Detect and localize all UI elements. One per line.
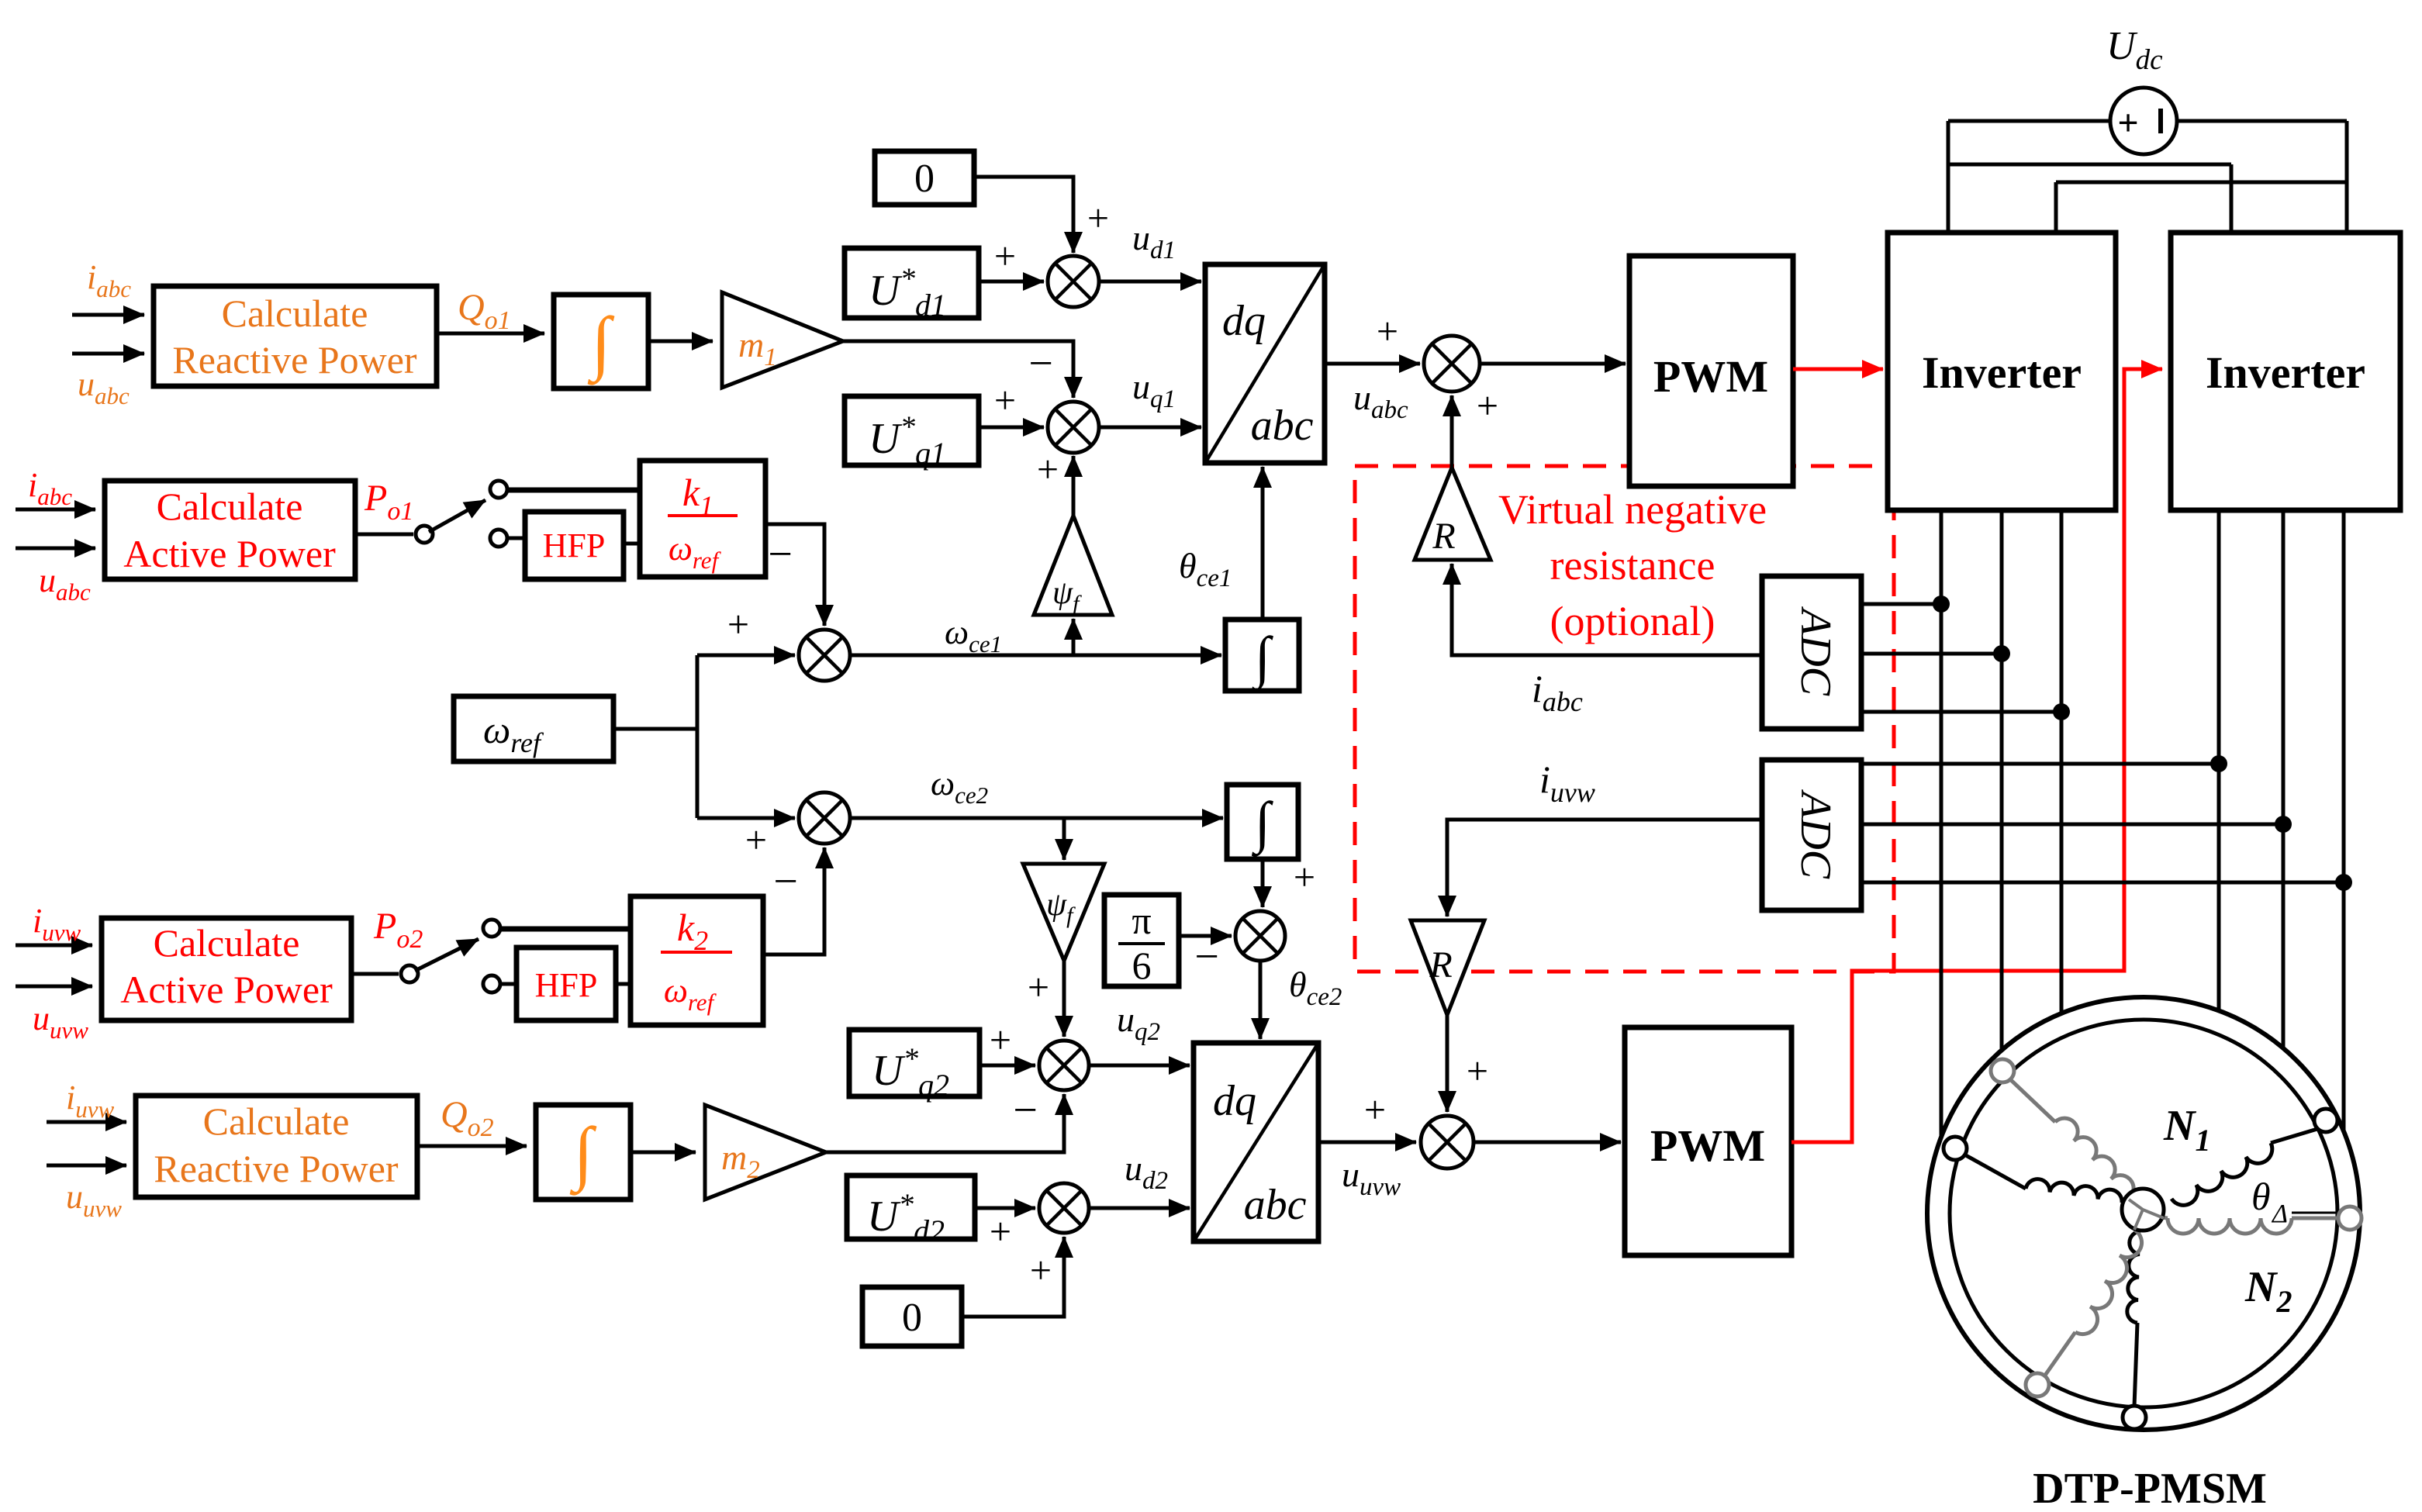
svg-text:Δ: Δ [2271, 1200, 2288, 1228]
svg-text:+: + [745, 818, 767, 861]
svg-text:Reactive Power: Reactive Power [154, 1147, 399, 1190]
svg-text:Active Power: Active Power [120, 968, 333, 1011]
svg-text:(optional): (optional) [1550, 598, 1715, 644]
svg-text:+: + [990, 1210, 1011, 1253]
svg-text:PWM: PWM [1650, 1120, 1765, 1171]
svg-text:resistance: resistance [1550, 542, 1715, 589]
svg-text:+: + [1028, 965, 1049, 1009]
svg-text:+: + [1294, 855, 1315, 899]
svg-text:−: − [1013, 1086, 1038, 1134]
svg-text:+: + [1030, 1248, 1052, 1292]
svg-text:HFP: HFP [543, 526, 606, 564]
svg-text:PWM: PWM [1653, 351, 1768, 402]
svg-text:Reactive Power: Reactive Power [172, 338, 417, 381]
svg-text:∫: ∫ [569, 1113, 596, 1196]
svg-text:HFP: HFP [535, 966, 598, 1004]
svg-text:+: + [990, 1018, 1011, 1062]
svg-text:Calculate: Calculate [203, 1099, 350, 1143]
svg-text:+: + [1377, 309, 1398, 353]
svg-text:+: + [727, 602, 749, 646]
svg-text:−: − [768, 530, 793, 578]
svg-text:−: − [773, 858, 798, 906]
svg-text:0: 0 [902, 1296, 922, 1340]
svg-text:θ: θ [2251, 1175, 2271, 1218]
svg-text:Active Power: Active Power [123, 532, 336, 575]
svg-text:Virtual negative: Virtual negative [1498, 486, 1767, 533]
svg-text:∫: ∫ [587, 302, 614, 385]
svg-text:+: + [1467, 1049, 1488, 1093]
svg-text:R: R [1429, 944, 1452, 986]
svg-text:Calculate: Calculate [222, 292, 368, 335]
svg-text:Inverter: Inverter [2206, 347, 2365, 398]
svg-text:ADC: ADC [1791, 789, 1840, 879]
svg-text:ADC: ADC [1791, 606, 1840, 696]
svg-text:Calculate: Calculate [154, 921, 300, 965]
svg-text:+: + [2117, 102, 2138, 143]
svg-text:dq: dq [1213, 1077, 1256, 1125]
svg-text:−: − [1028, 340, 1053, 388]
svg-text:π: π [1132, 899, 1151, 942]
svg-text:Inverter: Inverter [1922, 347, 2082, 398]
svg-text:0: 0 [914, 157, 935, 201]
svg-text:+: + [1364, 1088, 1386, 1131]
svg-text:+: + [994, 378, 1016, 422]
svg-text:Calculate: Calculate [157, 485, 303, 528]
svg-text:+: + [1087, 196, 1109, 240]
svg-text:+: + [1037, 447, 1059, 491]
svg-text:DTP-PMSM: DTP-PMSM [2033, 1465, 2267, 1508]
svg-text:6: 6 [1132, 944, 1152, 987]
svg-text:+: + [1477, 384, 1498, 427]
svg-text:R: R [1432, 516, 1455, 557]
svg-text:abc: abc [1251, 402, 1314, 450]
svg-text:−: − [1194, 933, 1219, 981]
svg-text:dq: dq [1222, 297, 1266, 345]
svg-text:abc: abc [1244, 1181, 1307, 1229]
svg-text:+: + [994, 234, 1016, 278]
